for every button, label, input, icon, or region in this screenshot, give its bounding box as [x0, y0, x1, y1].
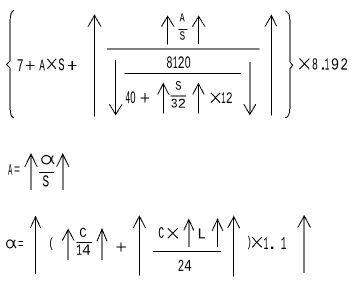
text: line2 alpha numerator (greek alpha): [42, 156, 51, 164]
small up arrow (right of A/S): [193, 16, 205, 44]
text: denominator 4 of 24: [185, 260, 192, 271]
text: 8120 digit 8: [167, 56, 172, 68]
text: line1 first plus (plus sign): [26, 61, 35, 70]
text: line2 A: [8, 164, 12, 174]
text: denominator S of A/S: [180, 31, 185, 40]
text: 8.192 digit 9: [332, 58, 338, 69]
small up arrow (right of S/32): [193, 84, 205, 114]
big up arrow (left of main fraction): [88, 15, 101, 116]
text: plus after 40 (plus sign): [141, 93, 150, 103]
text: times before 12 (multiplication cross): [211, 93, 220, 103]
text: 8120 digit 0: [185, 56, 190, 68]
text: 12 digit 1: [222, 92, 225, 103]
text: 12 digit 2: [227, 92, 232, 103]
line2 up arrow (left of alpha/S): [25, 154, 37, 190]
text: numerator A of A/S: [180, 13, 185, 21]
text: 8120 digit 1: [174, 56, 178, 68]
text: 1.1 first digit 1: [264, 237, 268, 249]
A/S fraction bar: [179, 28, 188, 30]
text: times before 1.1 (multiplication cross): [252, 237, 262, 247]
big up arrow (right of main fraction): [265, 15, 277, 115]
S/32 fraction bar: [171, 95, 186, 97]
sub fraction bar under 8120: [125, 72, 241, 74]
text: variable L: [199, 228, 205, 238]
small up arrow (right of L): [212, 219, 223, 247]
small up arrow (left of S/32): [158, 84, 169, 114]
text: line1 times (multiplication cross): [47, 59, 56, 69]
text: line3 alpha (greek alpha): [7, 240, 14, 248]
text: 8.192 digit 1: [325, 58, 329, 69]
CxL/24 fraction bar: [153, 251, 221, 253]
text: 40 digit 4: [126, 91, 130, 103]
right curly brace: [285, 11, 293, 118]
left curly brace: [6, 10, 14, 118]
text: 1.1 decimal point (period): [271, 247, 273, 249]
line3 tall up arrow #3 (after CxL/24): [228, 217, 240, 277]
text: denominator 3 of 32: [172, 99, 177, 108]
text: line1 variable A: [39, 60, 45, 71]
text: denominator 2 of 24: [179, 260, 184, 271]
text: numerator C of CxL/24: [159, 227, 164, 238]
C/14 fraction bar: [76, 242, 92, 244]
down arrow (right of 8120 sub-fraction): [244, 62, 256, 115]
text: line3 close paren: [248, 236, 251, 250]
text: 8120 digit 2: [178, 56, 183, 68]
line3 tall up arrow #1 (after alpha=): [30, 217, 40, 274]
text: 8.192 digit 2: [341, 58, 347, 69]
down arrow (left of 8120 sub-fraction): [110, 60, 122, 115]
text: line3 plus (plus sign): [116, 243, 126, 252]
text: line3 open paren: [50, 237, 53, 250]
text: denominator 4 of 14: [83, 245, 91, 255]
text: line2 S denominator: [43, 175, 49, 186]
text: 40 digit 0: [131, 91, 136, 103]
text: line1 variable S: [59, 58, 64, 70]
small up arrow (left of A/S): [162, 16, 174, 44]
line3 tall up arrow #2 (before CxL/24): [133, 216, 145, 275]
text: 1.1 second digit 1: [282, 237, 287, 249]
text: 8.192 decimal point (period): [322, 67, 324, 69]
text: numerator C of C/14: [80, 228, 86, 237]
line2 up arrow (right of alpha/S): [57, 154, 69, 190]
line3 medium up arrow (right of C/14): [97, 229, 107, 260]
line2 alpha/S fraction bar: [39, 172, 54, 174]
text: denominator 2 of 32: [179, 99, 186, 108]
text: line3 equals (equals sign): [18, 242, 23, 246]
line3 tall up arrow #4 (after x1.1): [298, 216, 311, 273]
text: line1 digit 7: [18, 59, 23, 71]
text: line2 equals (equals sign): [15, 167, 20, 171]
text: times before 8.192 (multiplication cross): [300, 59, 310, 70]
text: times in CxL (multiplication cross): [168, 228, 178, 238]
text: line1 second plus (plus sign): [68, 61, 77, 70]
small up arrow (left of L): [184, 220, 194, 248]
line3 medium up arrow (left of C/14): [62, 230, 74, 261]
text: denominator 1 of 14: [77, 245, 82, 255]
text: 8.192 digit 8: [313, 58, 318, 69]
text: numerator S of S/32: [176, 81, 181, 90]
main fraction bar: [107, 48, 259, 50]
